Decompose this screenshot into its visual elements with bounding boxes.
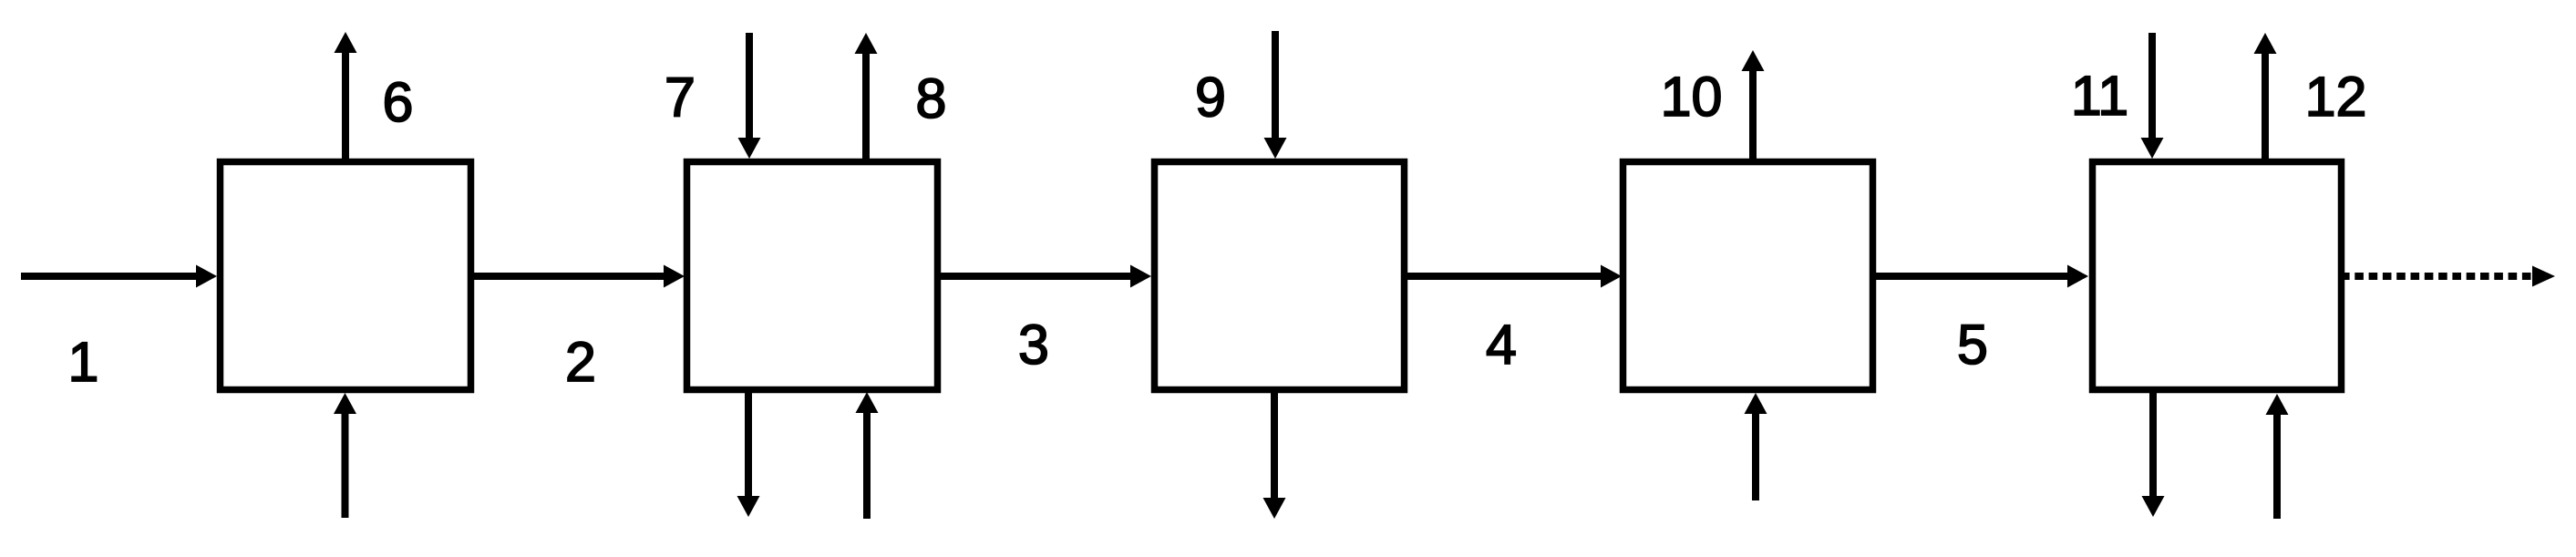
B1 bottom inlet arrow (up into B1) bbox=[334, 393, 356, 518]
stream 8 arrow (up out of B2 top) bbox=[855, 33, 878, 159]
unit block B4 bbox=[1623, 162, 1873, 390]
svg-text:10: 10 bbox=[1661, 66, 1723, 128]
B4 bottom inlet arrow (up into B4) bbox=[1745, 393, 1767, 500]
svg-text:3: 3 bbox=[1018, 314, 1049, 376]
svg-text:5: 5 bbox=[1957, 314, 1988, 376]
unit block B3 bbox=[1155, 162, 1405, 390]
B3 bottom outlet arrow (down out of B3) bbox=[1263, 393, 1286, 519]
stream 3 arrow bbox=[941, 265, 1151, 288]
stream 2 arrow bbox=[474, 265, 685, 288]
svg-text:11: 11 bbox=[2071, 65, 2128, 127]
svg-text:1: 1 bbox=[68, 331, 99, 393]
stream 7 arrow (down into B2 top) bbox=[738, 33, 761, 159]
stream 12 arrow (up out of B5 top) bbox=[2254, 33, 2277, 159]
B5 bottom outlet arrow (down out of B5) bbox=[2142, 393, 2165, 517]
B2 bottom inlet arrow (up into B2) bbox=[856, 392, 879, 519]
stream 5 arrow bbox=[1876, 265, 2088, 288]
svg-text:4: 4 bbox=[1486, 314, 1517, 376]
svg-text:8: 8 bbox=[916, 67, 947, 129]
stream 1 feed arrow bbox=[21, 265, 217, 288]
stream 9 arrow (down into B3 top) bbox=[1264, 31, 1287, 159]
svg-text:2: 2 bbox=[565, 331, 596, 393]
dashed continuation arrow out of B5 bbox=[2341, 266, 2555, 287]
stream 10 arrow (up out of B4 top) bbox=[1742, 50, 1765, 159]
unit block B1 bbox=[221, 162, 471, 390]
B5 bottom inlet arrow (up into B5) bbox=[2266, 394, 2289, 519]
unit block B2 bbox=[687, 162, 938, 390]
svg-text:6: 6 bbox=[383, 71, 414, 133]
stream 11 arrow (down into B5 top) bbox=[2141, 33, 2164, 159]
svg-text:7: 7 bbox=[665, 67, 696, 129]
svg-text:9: 9 bbox=[1195, 67, 1226, 129]
stream 4 arrow bbox=[1407, 265, 1622, 288]
B2 bottom outlet arrow (down out of B2) bbox=[737, 393, 760, 517]
stream 6 arrow (up out of B1 top) bbox=[335, 32, 357, 159]
svg-text:12: 12 bbox=[2305, 66, 2367, 128]
unit block B5 bbox=[2093, 162, 2342, 390]
